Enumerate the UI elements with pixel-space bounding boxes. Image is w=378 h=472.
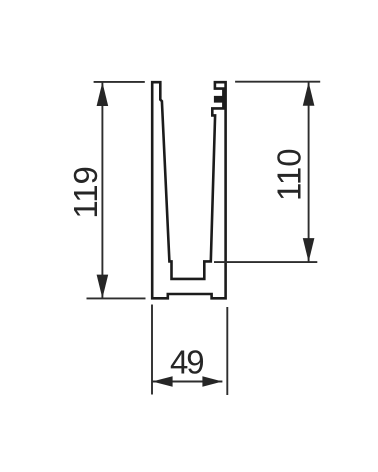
dimension 110: extension line bottom (214, 261, 317, 263)
dimension 119: extension line top (94, 81, 145, 83)
profile cross-section outline (152, 82, 225, 298)
dimension 119: arrow down (97, 275, 109, 299)
svg-text:110: 110 (271, 148, 308, 201)
dimension 49: arrow right (202, 376, 222, 387)
right wall serration tooth fill (214, 96, 225, 102)
svg-text:119: 119 (67, 166, 104, 219)
dimension 110: dimension line (308, 82, 310, 262)
dimension 119: dimension line (101, 82, 103, 298)
dimension 110: arrow down (303, 238, 315, 262)
dimension 49: dimension line (152, 381, 222, 383)
svg-text:49: 49 (170, 343, 205, 380)
dimension 110: extension line top (235, 81, 320, 83)
dimension 49: extension line right (226, 307, 228, 395)
dimension 119: extension line bottom (87, 297, 146, 299)
dimension 49: extension line left (151, 305, 153, 395)
dimension 119: arrow up (97, 82, 109, 106)
dimension 49: arrow left (152, 376, 172, 387)
dimension 110: arrow up (303, 82, 315, 106)
